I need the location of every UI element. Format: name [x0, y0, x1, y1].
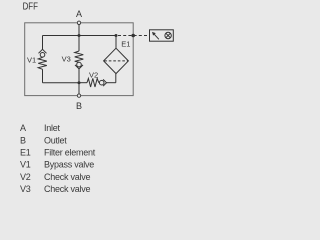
svg-text:V2: V2 — [89, 70, 98, 79]
svg-text:V2: V2 — [20, 172, 31, 182]
wire inner top manifold — [43, 35, 117, 37]
port B — [77, 94, 80, 97]
node junction on enclosure edge — [131, 34, 135, 38]
svg-text:Check valve: Check valve — [44, 172, 91, 182]
svg-text:A: A — [20, 123, 26, 133]
svg-text:B: B — [76, 101, 82, 111]
wire V1 bottom to center junction — [43, 82, 80, 84]
port A — [77, 21, 80, 24]
wire junction down to port B — [78, 83, 80, 94]
svg-text:A: A — [76, 9, 82, 19]
svg-text:E1: E1 — [121, 40, 130, 49]
wire dashed pilot line to indicator — [118, 35, 150, 37]
node junction bottom-center — [78, 81, 81, 84]
enclosure (filter housing boundary) — [25, 23, 134, 96]
svg-text:Check valve: Check valve — [44, 184, 91, 194]
legend — [20, 123, 96, 194]
svg-text:V1: V1 — [20, 160, 31, 170]
filter element E1 — [104, 48, 129, 73]
bypass valve V1 — [38, 36, 47, 83]
svg-text:Outlet: Outlet — [44, 135, 67, 145]
check valve V2 — [79, 74, 116, 87]
svg-text:E1: E1 — [20, 148, 31, 158]
svg-text:B: B — [20, 135, 26, 145]
node junction top-right — [115, 34, 118, 37]
svg-text:V1: V1 — [27, 55, 36, 64]
svg-text:DFF: DFF — [23, 1, 38, 12]
svg-text:Bypass valve: Bypass valve — [44, 160, 94, 170]
check valve V3 — [75, 51, 84, 83]
wire A down to manifold — [78, 25, 80, 52]
clogging indicator — [150, 30, 174, 41]
svg-text:V3: V3 — [62, 55, 71, 64]
node junction top-center — [78, 34, 81, 37]
svg-text:V3: V3 — [20, 184, 31, 194]
svg-text:Filter element: Filter element — [44, 148, 96, 158]
wire stub to filter element — [115, 36, 117, 49]
svg-text:Inlet: Inlet — [44, 123, 61, 133]
